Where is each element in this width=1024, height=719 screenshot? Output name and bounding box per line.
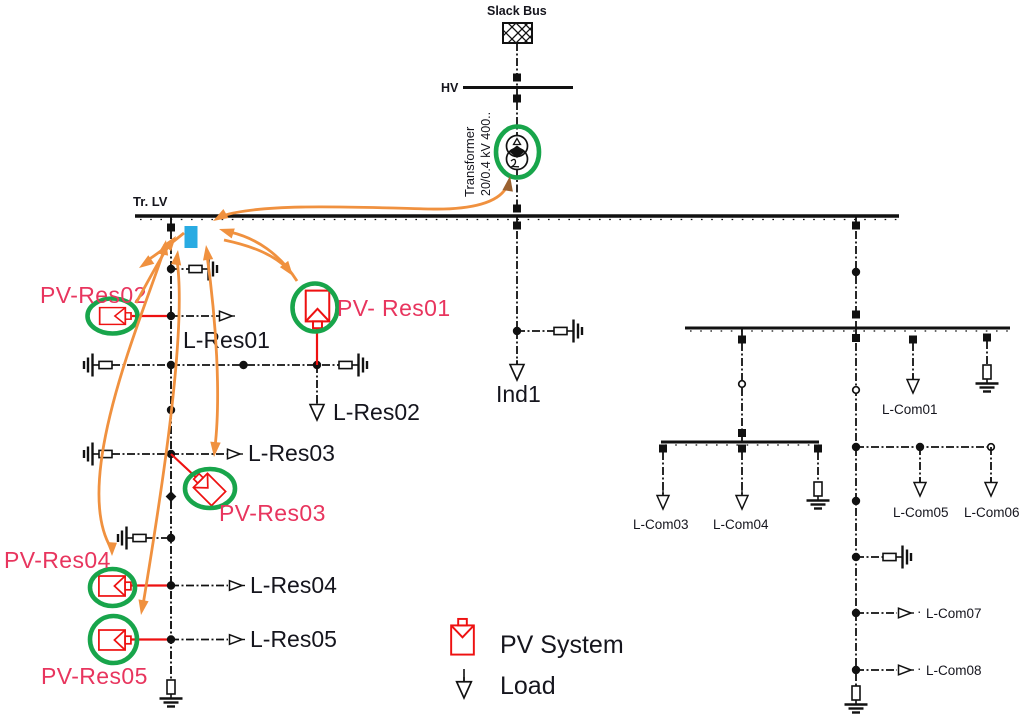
svg-text:·: · xyxy=(917,661,922,676)
svg-text:PV-Res03: PV-Res03 xyxy=(219,500,326,526)
svg-text:L-Res05: L-Res05 xyxy=(250,626,337,652)
svg-text:PV-Res05: PV-Res05 xyxy=(41,663,148,689)
svg-text:PV-Res02: PV-Res02 xyxy=(40,282,147,308)
svg-text:L-Com05: L-Com05 xyxy=(893,505,949,520)
svg-text:Load: Load xyxy=(500,672,556,700)
svg-text:L-Res04: L-Res04 xyxy=(250,572,337,598)
svg-text:HV: HV xyxy=(441,81,459,95)
svg-text:L-Com08: L-Com08 xyxy=(926,663,982,678)
svg-text:L-Res03: L-Res03 xyxy=(248,440,335,466)
svg-text:L-Res01: L-Res01 xyxy=(183,327,270,353)
svg-text:L-Com01: L-Com01 xyxy=(882,402,938,417)
svg-text:Transformer: Transformer xyxy=(462,126,477,197)
svg-text:PV System: PV System xyxy=(500,631,624,659)
svg-text:L-Com04: L-Com04 xyxy=(713,517,769,532)
svg-text:PV- Res01: PV- Res01 xyxy=(337,295,451,321)
svg-text:Slack Bus: Slack Bus xyxy=(487,4,547,18)
svg-text:L-Com07: L-Com07 xyxy=(926,606,982,621)
svg-text:Ind1: Ind1 xyxy=(496,381,541,407)
svg-text:20/0.4 kV 400..: 20/0.4 kV 400.. xyxy=(479,112,493,196)
svg-text:Tr. LV: Tr. LV xyxy=(133,194,168,209)
svg-text:L-Res02: L-Res02 xyxy=(333,399,420,425)
svg-text:·: · xyxy=(917,604,922,619)
svg-text:L-Com06: L-Com06 xyxy=(964,505,1020,520)
svg-text:PV-Res04: PV-Res04 xyxy=(4,547,111,573)
svg-text:L-Com03: L-Com03 xyxy=(633,517,689,532)
